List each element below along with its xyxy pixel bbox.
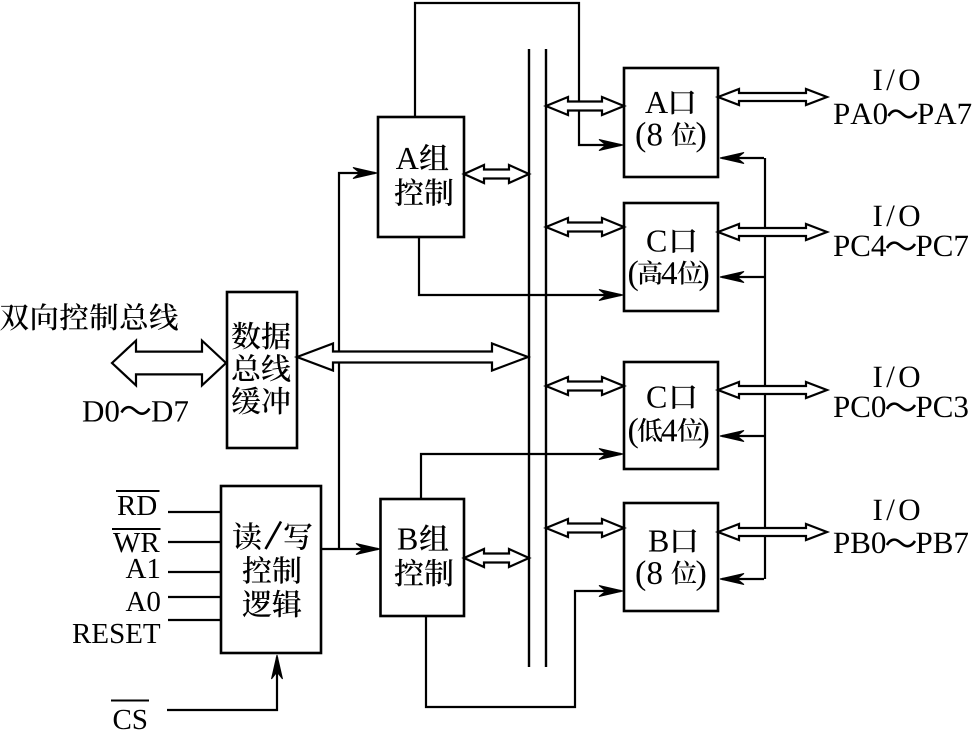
arrowhead up into read/write logic	[272, 655, 283, 679]
junction arrowhead into Port A left	[599, 140, 623, 151]
internal data bus right line	[545, 49, 547, 667]
wire: B-group control top to Port C lower left input	[421, 454, 621, 499]
Port C lower to I/O double arrow	[718, 382, 827, 398]
label: WR with overline	[113, 533, 140, 552]
label: I/O PC0~PC3	[874, 367, 882, 387]
arrowhead into A-group control left	[353, 168, 377, 179]
label: 双向控制总线 (bidirectional control bus)	[0, 304, 28, 330]
label: A1	[126, 559, 146, 578]
internal data bus left line	[528, 49, 530, 667]
text: B口 (8位)	[649, 531, 668, 552]
box: Port C upper (C口 高4位)	[624, 203, 718, 311]
arrowhead into Port B left	[599, 586, 623, 597]
text: 读/写控制逻辑	[233, 522, 261, 550]
label: RD with overline	[118, 496, 136, 515]
box: A-group control (A组控制)	[378, 117, 464, 237]
bus to Port A double arrow	[546, 97, 624, 115]
bus to Port B double arrow	[546, 519, 624, 537]
wire: CS-bar input to read/write logic bottom	[167, 657, 277, 710]
text: 数据总线缓冲 in buffer box	[232, 322, 260, 350]
text: A口 (8位)	[645, 92, 668, 113]
label: I/O PC4~PC7	[874, 206, 882, 226]
Port A to I/O double arrow	[718, 89, 827, 105]
bidirectional external bus arrow (far left)	[112, 341, 226, 386]
wire: WR input stub	[168, 541, 221, 543]
box: Port A (A口 8位)	[624, 68, 718, 177]
text: A组控制	[396, 148, 419, 169]
box: data bus buffer (数据总线缓冲)	[227, 292, 297, 448]
wire: stub to Port C lower right input	[722, 435, 764, 437]
wire: A0 input stub	[168, 596, 221, 598]
label: I/O PB0~PB7	[874, 500, 882, 520]
box: read/write control logic (读/写控制逻辑)	[221, 486, 321, 653]
wire: read/write logic branch up to A-group control	[339, 173, 375, 550]
text: C口 (高4位)	[647, 230, 665, 251]
arrowhead into Port C upper right	[720, 272, 744, 283]
Port C upper to I/O double arrow	[718, 224, 827, 240]
wire: RD input stub	[168, 511, 221, 513]
text: C口 (低4位)	[647, 386, 665, 407]
label: RESET	[73, 624, 91, 643]
arrowhead into B-group control left	[356, 544, 380, 555]
box: B-group control (B组控制)	[381, 499, 465, 616]
wire: A-group control top to Port A upper-left input	[415, 3, 621, 145]
wire: internal right vertical control line	[764, 158, 766, 579]
wire: A-group control bottom to Port C upper left input	[419, 237, 621, 295]
wire: A1 input stub	[168, 571, 221, 573]
wire: B-group control bottom to Port B left input	[426, 591, 621, 707]
box: Port B (B口 8位)	[624, 503, 718, 611]
wire: RESET input stub	[168, 619, 221, 621]
wire: stub to Port C upper right input	[722, 276, 764, 278]
box: Port C lower (C口 低4位)	[624, 362, 718, 469]
wire: read/write logic output to B-group control	[321, 548, 378, 550]
bus to Port C lower double arrow	[546, 377, 624, 395]
label: CS with overline	[114, 710, 131, 729]
wire: stub to Port A right input	[722, 157, 764, 159]
label: A0	[126, 592, 146, 611]
A-group control to bus double arrow	[464, 165, 529, 183]
arrowhead into Port B right	[720, 574, 744, 585]
arrowhead into Port C lower right	[720, 431, 744, 442]
text: B组控制	[398, 529, 417, 550]
arrowhead into Port A right	[720, 153, 744, 164]
label: I/O PA0~PA7	[874, 70, 882, 90]
wire: stub to Port B right input	[722, 578, 764, 580]
arrowhead into Port C upper left	[599, 290, 623, 301]
data bus buffer to internal bus double arrow	[297, 344, 528, 371]
bus to Port C upper double arrow	[546, 218, 624, 236]
B-group control to bus double arrow	[464, 549, 529, 567]
arrowhead into Port C lower left	[599, 449, 623, 460]
label: D0~D7	[83, 401, 103, 421]
Port B to I/O double arrow	[718, 524, 827, 540]
